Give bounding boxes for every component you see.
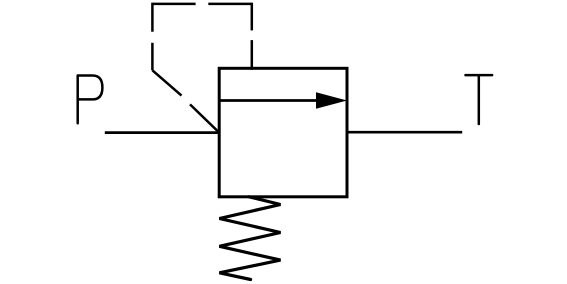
pilot line dash left vertical upper bbox=[151, 3, 154, 32]
pilot line dash right vertical lower bbox=[251, 40, 254, 70]
wire T line bbox=[346, 131, 462, 134]
pilot line dash top-right horizontal bbox=[208, 3, 252, 6]
pilot line dash top-left horizontal bbox=[152, 3, 195, 6]
pilot line dash diagonal lower bbox=[190, 104, 219, 132]
pilot line dash left vertical lower bbox=[151, 43, 154, 71]
spring bbox=[219, 197, 280, 280]
valve body box bbox=[219, 68, 347, 197]
flow arrow shaft bbox=[219, 99, 322, 102]
flow arrow head bbox=[316, 92, 347, 109]
port label T bbox=[466, 75, 493, 124]
wire P line bbox=[105, 131, 221, 134]
pilot line dash diagonal upper bbox=[152, 70, 181, 95]
port label P bbox=[78, 76, 103, 124]
pilot line dash right vertical upper bbox=[251, 3, 254, 31]
